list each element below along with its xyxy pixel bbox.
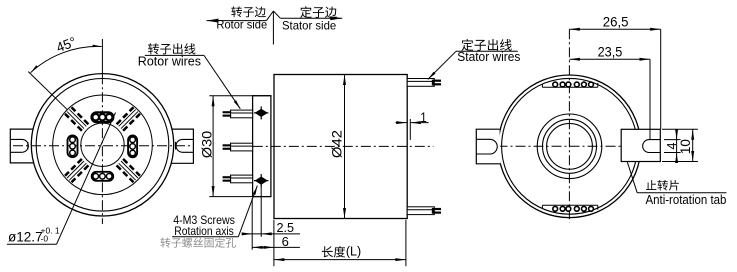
svg-text:Stator wires: Stator wires bbox=[457, 50, 520, 64]
svg-text:6: 6 bbox=[282, 234, 289, 249]
svg-text:Stator side: Stator side bbox=[282, 18, 336, 32]
svg-text:Rotor wires: Rotor wires bbox=[138, 54, 201, 68]
svg-text:Rotor side: Rotor side bbox=[216, 17, 267, 31]
svg-text:Anti-rotation tab: Anti-rotation tab bbox=[646, 193, 727, 207]
svg-text:10: 10 bbox=[677, 139, 693, 154]
svg-text:Ø42: Ø42 bbox=[329, 130, 345, 158]
svg-text:(L): (L) bbox=[346, 245, 361, 259]
svg-text:Rotation axis: Rotation axis bbox=[174, 224, 234, 238]
svg-text:-0: -0 bbox=[41, 234, 49, 244]
svg-text:1: 1 bbox=[420, 110, 427, 125]
svg-text:2.5: 2.5 bbox=[277, 220, 295, 235]
svg-text:23,5: 23,5 bbox=[598, 44, 623, 59]
svg-text:26,5: 26,5 bbox=[603, 15, 629, 30]
svg-text:ø12.7: ø12.7 bbox=[8, 229, 43, 244]
svg-text:Ø30: Ø30 bbox=[199, 131, 215, 159]
